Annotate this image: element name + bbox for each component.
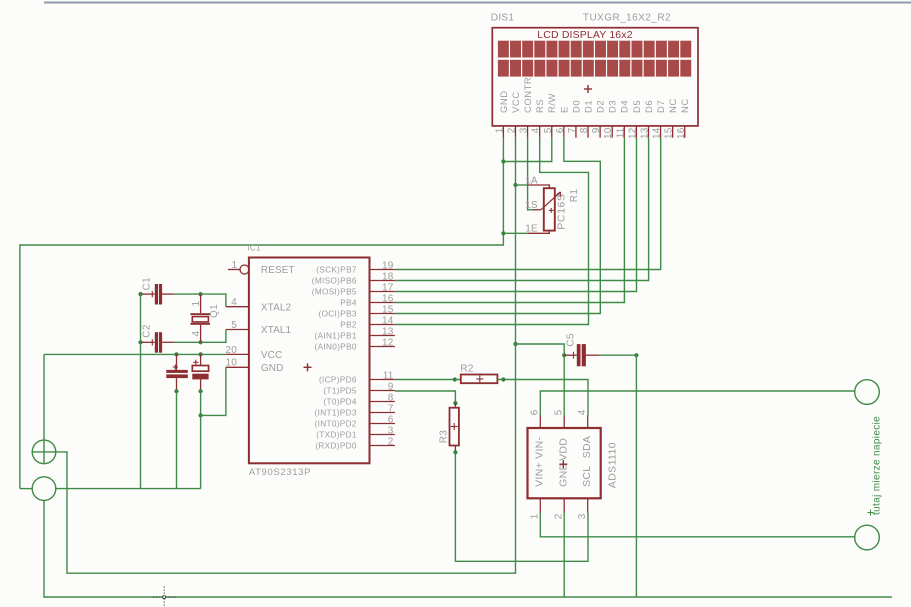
svg-text:14: 14 <box>382 316 394 327</box>
svg-text:12: 12 <box>627 127 638 139</box>
svg-text:14: 14 <box>652 127 663 139</box>
svg-text:D3: D3 <box>608 100 619 113</box>
svg-text:5: 5 <box>553 409 564 415</box>
svg-text:9: 9 <box>591 127 602 133</box>
svg-text:TUXGR_16X2_R2: TUXGR_16X2_R2 <box>583 13 671 24</box>
svg-text:(SCK)PB7: (SCK)PB7 <box>316 265 357 274</box>
svg-text:NC: NC <box>668 98 679 113</box>
svg-text:R2: R2 <box>460 364 474 375</box>
svg-text:C2: C2 <box>141 324 152 338</box>
svg-text:6: 6 <box>530 409 541 415</box>
svg-text:10: 10 <box>225 358 237 369</box>
svg-text:D0: D0 <box>571 100 582 113</box>
svg-text:(MISO)PB6: (MISO)PB6 <box>312 276 357 285</box>
svg-text:LCD DISPLAY 16x2: LCD DISPLAY 16x2 <box>537 29 632 41</box>
svg-text:13: 13 <box>382 327 394 338</box>
svg-text:6: 6 <box>388 415 394 426</box>
svg-text:9: 9 <box>388 382 394 393</box>
svg-text:tutaj mierze napiecie: tutaj mierze napiecie <box>871 416 882 515</box>
svg-text:VCC: VCC <box>261 350 282 361</box>
svg-text:13: 13 <box>639 127 650 139</box>
svg-text:DIS1: DIS1 <box>491 13 515 24</box>
svg-text:1S: 1S <box>525 200 538 211</box>
svg-text:AT90S2313P: AT90S2313P <box>249 467 311 478</box>
svg-text:16: 16 <box>676 127 687 139</box>
svg-text:(OCI)PB3: (OCI)PB3 <box>319 309 357 318</box>
svg-text:2: 2 <box>506 127 517 133</box>
svg-text:3: 3 <box>519 127 530 133</box>
svg-text:D5: D5 <box>632 100 643 113</box>
svg-text:(TXD)PD1: (TXD)PD1 <box>316 430 357 439</box>
svg-text:(AIN0)PB0: (AIN0)PB0 <box>315 342 357 351</box>
svg-text:(T0)PD4: (T0)PD4 <box>323 397 356 406</box>
svg-text:6: 6 <box>555 127 566 133</box>
svg-text:(INT0)PD2: (INT0)PD2 <box>315 419 357 428</box>
svg-text:D1: D1 <box>583 100 594 113</box>
svg-text:GND: GND <box>499 90 510 113</box>
svg-text:12: 12 <box>382 338 394 349</box>
svg-text:Q1: Q1 <box>209 304 220 318</box>
svg-text:5: 5 <box>543 127 554 133</box>
svg-text:2: 2 <box>553 513 564 519</box>
svg-text:11: 11 <box>383 371 394 382</box>
svg-text:8: 8 <box>388 393 394 404</box>
svg-text:1: 1 <box>530 513 541 519</box>
svg-text:XTAL2: XTAL2 <box>261 302 292 313</box>
svg-text:(AIN1)PB1: (AIN1)PB1 <box>315 331 357 340</box>
svg-text:SCL: SCL <box>581 466 593 487</box>
svg-text:D6: D6 <box>644 100 655 113</box>
svg-text:VDD: VDD <box>557 438 569 461</box>
svg-text:C5: C5 <box>566 333 577 347</box>
svg-text:19: 19 <box>382 261 394 272</box>
svg-text:4: 4 <box>531 127 542 133</box>
svg-text:4: 4 <box>191 331 202 337</box>
svg-text:(INT1)PD3: (INT1)PD3 <box>315 408 357 417</box>
svg-text:(ICP)PD6: (ICP)PD6 <box>319 375 357 384</box>
svg-text:15: 15 <box>664 127 675 139</box>
svg-text:7: 7 <box>388 404 394 415</box>
svg-text:20: 20 <box>225 345 237 356</box>
svg-text:7: 7 <box>567 127 578 133</box>
svg-text:4: 4 <box>577 409 588 415</box>
svg-text:11: 11 <box>615 127 626 138</box>
svg-text:10: 10 <box>603 127 614 139</box>
svg-text:3: 3 <box>388 426 394 437</box>
svg-text:D2: D2 <box>596 100 607 113</box>
svg-text:SDA: SDA <box>581 436 593 459</box>
svg-text:17: 17 <box>382 283 394 294</box>
svg-text:E: E <box>559 106 570 113</box>
svg-text:VIN+ VIN-: VIN+ VIN- <box>534 436 546 486</box>
svg-text:8: 8 <box>579 127 590 133</box>
svg-text:RESET: RESET <box>261 265 295 276</box>
svg-text:D7: D7 <box>656 100 667 113</box>
svg-text:18: 18 <box>382 272 394 283</box>
svg-text:VCC: VCC <box>511 91 522 113</box>
svg-text:R/W: R/W <box>547 93 558 113</box>
svg-text:C1: C1 <box>141 277 152 291</box>
svg-text:1A: 1A <box>525 175 538 186</box>
svg-text:PB2: PB2 <box>340 320 357 329</box>
svg-text:NC: NC <box>680 98 691 113</box>
svg-text:(RXD)PD0: (RXD)PD0 <box>315 441 357 450</box>
svg-text:R3: R3 <box>438 430 449 444</box>
svg-text:GND: GND <box>261 363 284 374</box>
svg-text:R1: R1 <box>569 189 580 203</box>
svg-text:PB4: PB4 <box>340 298 357 307</box>
svg-text:5: 5 <box>231 320 237 331</box>
svg-text:PC16S: PC16S <box>555 193 567 229</box>
svg-text:1: 1 <box>231 260 237 271</box>
svg-text:1: 1 <box>191 301 202 307</box>
svg-text:3: 3 <box>577 513 588 519</box>
svg-text:15: 15 <box>382 305 394 316</box>
svg-text:2: 2 <box>388 437 394 448</box>
svg-text:(T1)PD5: (T1)PD5 <box>323 386 356 395</box>
svg-text:ADS1110: ADS1110 <box>607 442 619 488</box>
svg-text:1: 1 <box>494 127 505 133</box>
svg-text:IC1: IC1 <box>247 244 261 253</box>
svg-text:4: 4 <box>231 297 237 308</box>
svg-text:(MOSI)PB5: (MOSI)PB5 <box>312 287 357 296</box>
svg-text:RS: RS <box>535 99 546 113</box>
svg-text:CONTR: CONTR <box>523 77 534 113</box>
svg-text:1E: 1E <box>525 223 538 234</box>
svg-text:XTAL1: XTAL1 <box>261 325 292 336</box>
svg-text:16: 16 <box>382 294 394 305</box>
svg-text:D4: D4 <box>620 100 631 113</box>
